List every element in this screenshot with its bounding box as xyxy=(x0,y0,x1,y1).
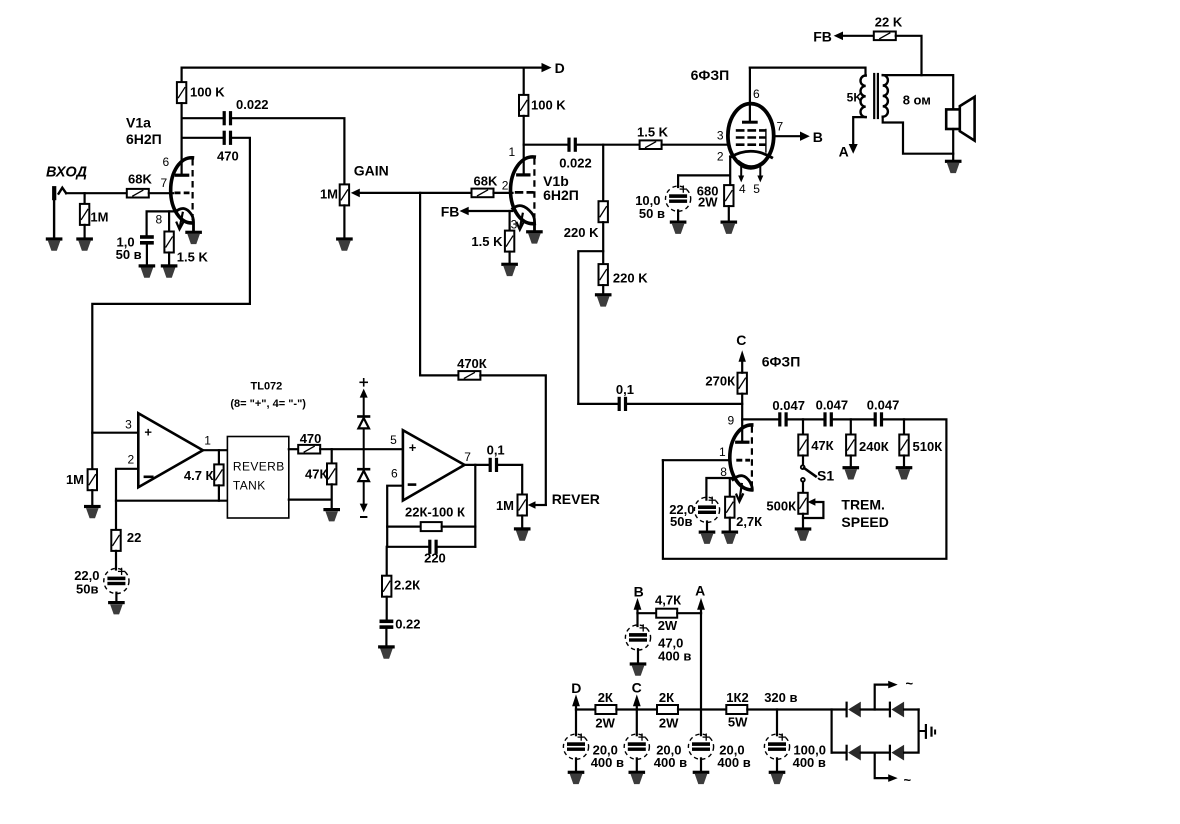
svg-text:~: ~ xyxy=(904,773,912,788)
diode D2 (clamp down) xyxy=(357,468,370,481)
svg-text:47К: 47К xyxy=(811,438,833,453)
pentode anode wire pin 6 xyxy=(749,68,751,121)
svg-text:22К-100 К: 22К-100 К xyxy=(405,505,465,520)
resistor 100K (V1b plate load) xyxy=(519,95,566,116)
pin 5 label xyxy=(390,433,397,447)
wire 2K to C node xyxy=(616,708,657,710)
heater lead pin 4 xyxy=(738,164,746,196)
wire 4,7K to A node xyxy=(677,612,701,614)
svg-text:0,1: 0,1 xyxy=(487,443,505,458)
capacitor 0.022 (coupling to output tube) xyxy=(559,138,592,171)
TL072 labels xyxy=(230,381,306,411)
capacitor 220 (feedback) xyxy=(387,540,446,566)
resistor 47К (tank load) xyxy=(305,449,336,484)
wire 100K to plate xyxy=(181,103,183,174)
triode V1b labels xyxy=(543,173,579,203)
triode trem anode bar xyxy=(737,441,748,444)
triode trem cathode arrow xyxy=(736,484,743,502)
wire node to D2 xyxy=(363,449,365,468)
resistor 220 K (upper divider) xyxy=(564,145,608,240)
wire jack sleeve to ground xyxy=(53,200,55,237)
wire rail to V1b 100K xyxy=(523,68,525,95)
diode D1 (clamp up) xyxy=(357,415,370,428)
svg-text:6: 6 xyxy=(163,155,170,169)
svg-text:4: 4 xyxy=(739,182,746,196)
svg-text:S1: S1 xyxy=(817,468,834,484)
wire divider to 0,1 cap xyxy=(578,403,617,405)
svg-text:B: B xyxy=(813,129,823,145)
svg-text:2.2К: 2.2К xyxy=(394,578,420,593)
svg-text:2: 2 xyxy=(502,179,509,193)
ground (22,0 driver) xyxy=(108,601,125,614)
svg-text:400 в: 400 в xyxy=(658,649,691,664)
phase loop right side xyxy=(663,419,947,558)
resistor 68K (V1a grid stopper) xyxy=(127,172,153,198)
svg-text:1.5 K: 1.5 K xyxy=(471,234,503,249)
capacitor 0.047 third xyxy=(867,398,900,427)
ground (input 1M) xyxy=(76,237,93,250)
pin 9 label xyxy=(728,414,735,428)
GAIN pot wiper arrow xyxy=(351,189,472,198)
transformer primary 5K xyxy=(847,76,866,118)
ground (GAIN pot) xyxy=(336,237,353,250)
node D arrow psu xyxy=(572,694,580,709)
pin 6 label xyxy=(391,467,398,481)
wire speaker to ground xyxy=(952,129,954,160)
svg-text:1К2: 1К2 xyxy=(726,690,748,705)
wire V1b grid junction to 470K reverb return xyxy=(419,193,421,376)
svg-text:FB: FB xyxy=(813,29,832,45)
resistor 2К 2W (second) xyxy=(657,690,679,731)
input jack label ВХОД xyxy=(46,165,87,181)
pin 3 label xyxy=(717,129,724,143)
320 в label xyxy=(764,690,797,705)
1M pot wiper arrow xyxy=(528,501,546,509)
pin 6 label xyxy=(163,155,170,169)
wire 240K to ground xyxy=(850,456,852,467)
svg-text:1: 1 xyxy=(204,434,211,448)
svg-text:240К: 240К xyxy=(859,439,889,454)
svg-text:8 ом: 8 ом xyxy=(903,93,931,108)
minus rail arrow xyxy=(360,482,368,512)
capacitor 22,0 50в (trem cathode bypass) xyxy=(669,497,719,529)
svg-text:2W: 2W xyxy=(595,716,615,731)
resistor 22 K (feedback) xyxy=(874,15,903,41)
pin 8 label xyxy=(156,213,163,227)
svg-text:2W: 2W xyxy=(698,195,718,210)
switch S1 xyxy=(801,456,835,484)
svg-text:REVER: REVER xyxy=(552,491,600,507)
ground (500K) xyxy=(795,527,812,540)
wire divider tap to tremolo feed xyxy=(578,251,603,404)
svg-text:47К: 47К xyxy=(305,467,327,482)
bridge top middle wire xyxy=(861,708,889,710)
svg-text:5: 5 xyxy=(753,182,760,196)
FB label (from speaker) xyxy=(813,29,832,45)
ground (240K) xyxy=(843,466,860,479)
triode V1b anode xyxy=(518,173,529,176)
ground (1.5K) xyxy=(161,264,178,277)
svg-text:3: 3 xyxy=(125,418,132,432)
pin 6 label xyxy=(753,87,760,101)
wire 0,1 to 270K node xyxy=(627,403,742,405)
svg-text:C: C xyxy=(632,680,642,696)
pin 3 label xyxy=(125,418,132,432)
wire pin2 loop xyxy=(116,469,227,501)
svg-text:2: 2 xyxy=(128,453,135,467)
node C arrow xyxy=(736,332,746,373)
ground (V1b) xyxy=(526,230,543,243)
potentiometer 500К (speed) xyxy=(766,482,807,514)
resistor 22К-100 К (feedback) xyxy=(387,505,465,532)
wire 2K2 to 1K2 xyxy=(678,708,726,710)
input jack xyxy=(52,186,66,200)
resistor 510К (phase 3) xyxy=(899,419,942,455)
wire 22K-100K to output bus xyxy=(442,525,476,527)
op-amp U1b (reverb recovery) xyxy=(403,430,465,500)
triode V1a anode xyxy=(176,174,187,177)
triode trem cathode xyxy=(733,476,752,490)
potentiometer 1М (reverb level) xyxy=(496,495,527,516)
svg-text:100 K: 100 K xyxy=(190,85,225,100)
ground (cap D) xyxy=(568,771,585,784)
svg-text:4.7 К: 4.7 К xyxy=(184,468,214,483)
svg-text:510К: 510К xyxy=(913,439,943,454)
pentode anode bar xyxy=(744,121,757,124)
pin 2 label xyxy=(128,453,135,467)
svg-text:1М: 1М xyxy=(66,472,84,487)
svg-text:TREM.: TREM. xyxy=(841,497,885,513)
wire pentode anode to transformer xyxy=(750,68,866,76)
svg-text:4,7К: 4,7К xyxy=(655,593,681,608)
pin 8 label xyxy=(720,465,727,479)
wire 510K to ground xyxy=(903,456,905,467)
svg-text:68K: 68K xyxy=(474,174,498,189)
svg-text:ВХОД: ВХОД xyxy=(46,165,87,181)
capacitor 100,0 400 в (320в) xyxy=(764,710,826,771)
wire 470 cap down to reverb input bus xyxy=(92,138,250,469)
wire 1.5K to output tube grid xyxy=(662,144,729,146)
svg-text:1М: 1М xyxy=(496,498,514,513)
ground (2,7К) xyxy=(722,531,739,544)
svg-text:1.5 K: 1.5 K xyxy=(177,250,209,265)
wire output feedback bus xyxy=(474,465,476,547)
resistor 68K (V1b grid) xyxy=(472,174,498,198)
wire 1.5K to ground xyxy=(168,253,170,265)
wire to capacitor 0.022 xyxy=(182,117,223,119)
wire 220 to output bus xyxy=(438,546,476,548)
ground (V1a) xyxy=(185,231,202,244)
pentode grid rows xyxy=(736,130,766,144)
bridge right rail xyxy=(904,710,919,753)
wire 470K to reverb pot wiper xyxy=(480,375,545,505)
svg-text:7: 7 xyxy=(161,176,168,190)
pin 2 label xyxy=(717,150,724,164)
pentode cathode xyxy=(731,151,772,157)
wire 0,1 to pot xyxy=(498,465,522,495)
pin 7 label xyxy=(161,176,168,190)
capacitor 0.047 first xyxy=(772,398,805,427)
svg-text:270К: 270К xyxy=(705,374,735,389)
pin 7 label xyxy=(464,450,471,464)
ground (divider) xyxy=(595,293,612,306)
svg-text:6: 6 xyxy=(753,87,760,101)
node C label psu xyxy=(632,680,642,696)
capacitor 20,0 400 в (node C) xyxy=(624,710,687,771)
node D rail wire xyxy=(182,66,542,68)
wire op-amp2 output xyxy=(465,464,489,466)
resistor 470К (reverb return) xyxy=(420,356,487,380)
ground (speaker) xyxy=(945,160,962,173)
wire 10,0 to ground xyxy=(677,210,679,220)
svg-text:1M: 1M xyxy=(90,210,108,225)
triode trem grid dashes xyxy=(736,459,750,462)
capacitor 470 (bypass to reverb feed) xyxy=(182,131,239,164)
svg-text:TANK: TANK xyxy=(233,479,266,493)
wire node A vertical xyxy=(700,613,702,735)
svg-text:0.022: 0.022 xyxy=(236,97,269,112)
wire 1M to ground xyxy=(83,225,85,238)
capacitor 1,0 50в (cathode bypass) xyxy=(116,235,154,263)
minus rail mark xyxy=(361,516,366,518)
svg-text:470: 470 xyxy=(300,431,322,446)
resistor 1К2 5W xyxy=(726,690,748,730)
capacitor 22,0 50в (driver gain) xyxy=(74,551,129,597)
svg-text:500К: 500К xyxy=(766,499,796,514)
capacitor 10,0 50 в (cathode bypass) xyxy=(635,175,691,221)
capacitor 20,0 400 в (node A) xyxy=(688,734,750,770)
svg-text:A: A xyxy=(839,144,849,160)
output tube label 6ФЗП xyxy=(691,67,730,83)
svg-text:5W: 5W xyxy=(728,715,748,730)
node B label xyxy=(634,584,644,600)
svg-text:1: 1 xyxy=(719,445,726,459)
FB arrow xyxy=(834,32,874,41)
svg-text:REVERB: REVERB xyxy=(233,460,285,474)
svg-text:C: C xyxy=(736,332,746,348)
wire 0.022 to 1.5K xyxy=(577,144,640,146)
svg-text:22: 22 xyxy=(127,530,141,545)
triode 6Ф3П(trem) envelope xyxy=(730,425,752,490)
bridge bottom middle wire xyxy=(861,751,889,753)
REVERB TANK box xyxy=(227,437,288,519)
wire 4.7K to loop xyxy=(218,485,220,500)
pentode beam plate line xyxy=(765,130,767,153)
svg-text:0,1: 0,1 xyxy=(616,382,634,397)
wire 22,0 to ground xyxy=(115,593,117,601)
resistor 4.7 К (feedback) xyxy=(184,450,224,485)
svg-text:50в: 50в xyxy=(76,582,98,597)
pin 7 wire and node B arrow xyxy=(774,129,823,145)
svg-text:SPEED: SPEED xyxy=(841,514,888,530)
svg-text:320 в: 320 в xyxy=(764,690,797,705)
ground (cap 100,0) xyxy=(769,771,786,784)
ground (driver 1M) xyxy=(84,505,101,518)
resistor 47К (phase 1) xyxy=(798,419,833,455)
wire 1,0 cap to ground xyxy=(146,245,148,265)
triode V1a envelope xyxy=(171,158,193,223)
resistor 1.5 K (V1b cathode) xyxy=(471,211,514,252)
ground (1,0 cap) xyxy=(139,264,156,277)
ground (680) xyxy=(721,221,738,234)
wire 680 to ground xyxy=(728,206,730,220)
500K wiper arrow xyxy=(803,498,823,518)
wire 1K2 to bridge xyxy=(747,708,845,710)
svg-text:2: 2 xyxy=(717,150,724,164)
svg-text:0.022: 0.022 xyxy=(559,156,592,171)
wire B node to 4,7K xyxy=(638,612,657,614)
wire plate node to coupling cap xyxy=(524,144,568,146)
svg-text:6ФЗП: 6ФЗП xyxy=(691,67,730,83)
svg-text:0.047: 0.047 xyxy=(772,398,805,413)
capacitor 0.022 (to GAIN pot) xyxy=(223,97,269,125)
wire lower 220K to ground xyxy=(602,285,604,293)
svg-text:50 в: 50 в xyxy=(116,247,142,262)
resistor 1.5 K (output grid stopper) xyxy=(637,125,669,150)
transformer secondary 8 ом xyxy=(883,75,931,117)
ground (47,0) xyxy=(630,662,647,675)
ground (22,0) xyxy=(699,531,716,544)
svg-text:FB: FB xyxy=(441,204,460,220)
capacitor 47,0 400 в xyxy=(625,613,691,663)
resistor 22 (driver gain) xyxy=(111,501,141,551)
resistor 4,7К 2W xyxy=(655,593,681,634)
svg-text:+: + xyxy=(409,440,417,455)
wire D to 2K xyxy=(576,708,595,710)
svg-text:2W: 2W xyxy=(658,618,678,633)
svg-text:TL072: TL072 xyxy=(251,381,283,393)
svg-text:3: 3 xyxy=(717,129,724,143)
ground (tank) xyxy=(323,508,340,521)
diode VD1 xyxy=(832,745,861,761)
pin 2 label xyxy=(502,179,509,193)
svg-text:470К: 470К xyxy=(457,356,487,371)
svg-text:~: ~ xyxy=(906,676,914,691)
capacitor 0,1 (tremolo feed) xyxy=(616,382,634,411)
wire primary bottom to node A xyxy=(839,117,866,159)
svg-text:2К: 2К xyxy=(598,690,613,705)
AC input top xyxy=(875,676,914,710)
triode V1b cathode arrow xyxy=(517,214,523,230)
diode VD3 xyxy=(889,702,904,718)
bridge top right wire xyxy=(904,708,919,710)
svg-text:D: D xyxy=(571,680,581,696)
svg-text:D: D xyxy=(555,60,565,76)
plus rail arrow xyxy=(360,389,368,416)
wire V1a cathode to pin8 network xyxy=(147,211,176,235)
svg-text:GAIN: GAIN xyxy=(354,163,389,179)
wire tank return to ground xyxy=(289,484,332,508)
plus rail mark xyxy=(360,379,367,386)
node D arrow xyxy=(542,63,552,72)
AC input bottom xyxy=(875,753,912,788)
heater lead pin 5 xyxy=(753,164,763,196)
wire 500K to ground xyxy=(802,514,804,528)
pin 3 label xyxy=(511,218,518,232)
svg-text:0.047: 0.047 xyxy=(816,398,849,413)
wire 100K to V1b plate xyxy=(523,116,525,174)
svg-text:2К: 2К xyxy=(659,690,674,705)
capacitor 0,1 (reverb out) xyxy=(487,443,505,473)
wire pin6 to feedback bus xyxy=(387,486,403,547)
triode V1b envelope xyxy=(510,157,534,224)
tremolo tube label 6ФЗП xyxy=(762,354,801,370)
wire to second cap xyxy=(788,418,824,420)
resistor 470 (tank output) xyxy=(298,431,321,454)
resistor 100K (V1a plate load) xyxy=(177,82,225,103)
pin 1 label xyxy=(509,145,516,159)
svg-text:68K: 68K xyxy=(128,172,152,187)
svg-text:400 в: 400 в xyxy=(793,755,826,770)
wire cap D to ground xyxy=(575,758,577,770)
ground (10,0) xyxy=(670,221,687,234)
ground (510K) xyxy=(896,466,913,479)
svg-text:6ФЗП: 6ФЗП xyxy=(762,354,801,370)
wire 0.022 to GAIN pot top xyxy=(232,118,344,184)
pin 1 label xyxy=(719,445,726,459)
triode V1a cathode xyxy=(176,208,194,231)
wire 470 to op-amp2 xyxy=(320,448,403,450)
wire D1 to node xyxy=(363,430,365,450)
svg-text:220 K: 220 K xyxy=(613,271,648,286)
potentiometer GAIN 1M xyxy=(320,163,389,206)
pin 7 label xyxy=(777,120,784,134)
svg-text:7: 7 xyxy=(464,450,471,464)
wire 2,7К to ground xyxy=(729,518,731,531)
wire 270K to plate and pin9 node xyxy=(741,394,743,441)
wire 68K to V1b grid xyxy=(494,192,513,194)
node D label psu xyxy=(571,680,581,696)
svg-text:6: 6 xyxy=(391,467,398,481)
svg-text:8: 8 xyxy=(156,213,163,227)
capacitor 0.22 (gain set) xyxy=(380,597,421,632)
svg-text:2,7К: 2,7К xyxy=(736,514,762,529)
TREM. SPEED labels xyxy=(841,497,888,531)
wire pot to ground xyxy=(521,516,523,528)
capacitor 20,0 400 в (node D) xyxy=(563,710,624,771)
transformer core xyxy=(874,74,878,118)
triode V1a grid dashes xyxy=(175,191,190,194)
svg-text:B: B xyxy=(634,584,644,600)
pin 9 wire to phase network xyxy=(742,418,778,420)
wire 22K to speaker node xyxy=(896,36,922,75)
svg-text:400 в: 400 в xyxy=(654,755,687,770)
svg-text:+: + xyxy=(144,425,152,440)
ground (jack) xyxy=(46,237,63,250)
triode V1a labels xyxy=(126,115,162,148)
resistor 240К (phase 2) xyxy=(846,419,889,455)
ground (reverb pot) xyxy=(514,527,531,540)
wire 22,0 to ground xyxy=(706,522,708,531)
capacitor 0.047 second xyxy=(816,398,849,427)
ground (V1b cathode) xyxy=(501,263,518,276)
wire V1a plate to rail xyxy=(181,68,183,83)
wire secondary bottom xyxy=(883,117,954,154)
wire 68K to V1a grid xyxy=(149,192,173,194)
triode V1b cathode xyxy=(513,206,535,231)
node D label xyxy=(555,60,565,76)
resistor 1М (driver input load) xyxy=(66,469,97,490)
wire 1.5K to ground xyxy=(509,252,511,263)
wire trem grid to loop xyxy=(663,459,730,461)
chassis ground symbol xyxy=(926,725,935,738)
svg-text:7: 7 xyxy=(777,120,784,134)
resistor 1M (input grid leak) xyxy=(80,193,109,225)
wire cap C to ground xyxy=(636,758,638,770)
svg-text:1: 1 xyxy=(509,145,516,159)
ground (0.22) xyxy=(378,645,395,658)
svg-text:V1a: V1a xyxy=(126,115,151,131)
